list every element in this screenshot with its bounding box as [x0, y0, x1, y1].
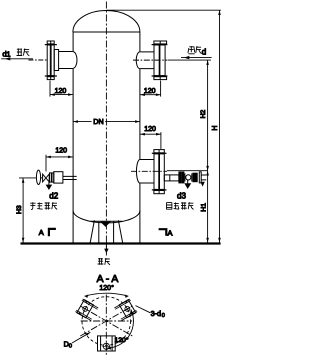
right skirt leg [118, 220, 122, 242]
d3 end stub [201, 175, 206, 180]
section bolt hole d0 [103, 343, 109, 349]
d3 extension tick [167, 170, 208, 172]
nozzle d1 flange discs [47, 45, 50, 76]
section centerline vertical [105, 295, 107, 356]
nozzle d flange bottom cap [152, 75, 168, 77]
nozzle d intake neck [140, 52, 154, 69]
label jinqi char1 [188, 46, 195, 54]
d3 valve flange right [193, 173, 195, 182]
d3 end drain arrow [200, 182, 204, 187]
svg-text:DN: DN [93, 117, 103, 126]
section bracket left [49, 229, 56, 236]
dim H2 top tick [168, 59, 211, 61]
nozzle d flange top cap [152, 44, 168, 46]
tangent line top [73, 31, 140, 33]
svg-text:A: A [39, 228, 44, 237]
nozzle d2 tick [19, 177, 36, 179]
nozzle d1 neck [59, 52, 73, 69]
leader D0 [72, 332, 90, 343]
dim 120 d3: extension [160, 132, 162, 149]
nozzle d1 flange bottom cap [45, 75, 57, 77]
drain pipe [99, 222, 114, 243]
svg-text:d: d [202, 47, 206, 56]
nozzle d3 neck [140, 160, 154, 184]
dim H1 line [207, 171, 209, 243]
svg-text:3-d: 3-d [151, 309, 161, 318]
vessel vertical centerline [105, 2, 107, 258]
section stub upper-left [75, 298, 98, 321]
dim DN line [73, 121, 140, 123]
svg-text:H1: H1 [200, 203, 207, 212]
svg-text:H3: H3 [16, 205, 23, 214]
svg-text:d2: d2 [49, 191, 58, 200]
svg-text:d3: d3 [177, 191, 186, 200]
dim H2 line [207, 60, 209, 171]
nozzle d3 centerline [131, 170, 167, 172]
d3 outlet pipe [164, 175, 179, 181]
svg-text:120: 120 [144, 126, 156, 133]
label shoudongpaiwu char4 [52, 202, 57, 209]
label paiqi char2 [23, 48, 29, 55]
dim H top tick [106, 9, 220, 11]
nozzle d2 flange pair [50, 173, 52, 182]
nozzle d2 hub [54, 172, 63, 183]
nozzle d1 flange top cap [45, 44, 57, 46]
intake label line [181, 57, 212, 59]
dim 120 d1: line [50, 94, 73, 96]
nozzle d shell bump [136, 52, 140, 69]
label paiwu bottom char2 [105, 258, 110, 265]
svg-text:120: 120 [55, 88, 67, 95]
d3 end bar [199, 172, 201, 183]
section stub upper-right [114, 298, 137, 321]
section bottom stub [98, 336, 116, 351]
d3 valve body [186, 175, 191, 180]
nozzle d2 stem [41, 177, 43, 179]
dim 120 d2: extension [45, 155, 47, 172]
shell right edge [139, 32, 141, 243]
bottom head [73, 211, 140, 223]
svg-text:120: 120 [144, 88, 156, 95]
leader 3-d0 [136, 306, 151, 313]
svg-text:H2: H2 [200, 109, 207, 118]
label zidongpaiwu char1 [166, 203, 172, 210]
nozzle d flange discs [154, 45, 159, 76]
section shell circle [82, 297, 131, 346]
nozzle d1 flow arrow [5, 57, 11, 60]
nozzle d3 shell bump [136, 160, 139, 184]
nozzle d1 label line [1, 58, 33, 60]
left skirt leg [90, 220, 94, 242]
svg-text:120°: 120° [99, 284, 114, 292]
label paiwu bottom char1 [98, 258, 104, 265]
nozzle d3 flange discs [154, 154, 159, 190]
section bracket right [159, 229, 167, 236]
label shoudongpaiwu char1 [30, 202, 35, 209]
dim H line [219, 10, 221, 242]
nozzle d centerline [133, 59, 167, 61]
section centerline horizontal [81, 320, 133, 322]
dim 120 d: extension [160, 81, 162, 97]
d3 valve flange left [179, 172, 181, 183]
dim 120 d2: line [46, 156, 73, 158]
dim 120 d1: extension [49, 81, 51, 97]
svg-text:0: 0 [69, 344, 72, 350]
nozzle d2 drain arrow [48, 182, 50, 185]
label zidongpaiwu char4 [188, 202, 193, 209]
label zidongpaiwu char2 [174, 202, 179, 209]
ground line [21, 242, 221, 244]
svg-text:A: A [168, 229, 173, 238]
label zidongpaiwu char3 [181, 202, 187, 209]
nozzle d3 flange top cap [152, 152, 167, 154]
label shoudongpaiwu char3 [45, 202, 51, 209]
section axis upper-left [80, 306, 132, 336]
drain flow arrow [105, 246, 107, 250]
section axis upper-right [80, 306, 132, 336]
shell left edge [72, 32, 74, 243]
drain funnel mark [100, 222, 111, 227]
top head (dome) [73, 11, 140, 33]
nozzle d2 handwheel [36, 170, 40, 184]
skirt opening line [91, 220, 123, 222]
nozzle d1 centerline [29, 59, 48, 61]
svg-text:d1: d1 [2, 49, 10, 58]
intake flow arrow [184, 56, 190, 59]
section 120 lower arc [106, 310, 133, 349]
nozzle d2 pipe [63, 176, 77, 179]
nozzle d1 hub [54, 50, 58, 71]
nozzle d3 flange bottom cap [152, 189, 167, 191]
label paiqi char1 [17, 48, 23, 56]
svg-text:0: 0 [162, 313, 165, 319]
dim 120 d3: line [140, 133, 161, 135]
dim 120 d: line [140, 94, 161, 96]
svg-text:120: 120 [55, 148, 67, 155]
label shoudongpaiwu char2 [37, 202, 42, 209]
nozzle d1 shell bump [73, 52, 77, 68]
section 120 top arc [85, 293, 129, 296]
label jinqi char2 [196, 46, 202, 54]
nozzle d2 valve body [43, 174, 50, 182]
dim H3 line [22, 178, 24, 243]
svg-text:H: H [212, 126, 219, 131]
svg-text:120°: 120° [115, 336, 129, 344]
svg-text:A-A: A-A [97, 274, 121, 285]
d3 valve drain arrow [187, 180, 189, 183]
